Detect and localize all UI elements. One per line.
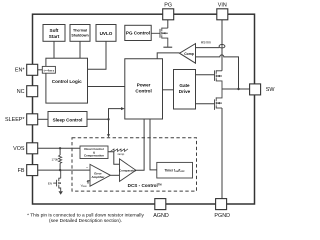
box UVLO [96, 25, 116, 42]
svg-text:Start: Start [49, 34, 60, 39]
op-amp Error Amplifier [90, 164, 110, 186]
wire SW node [222, 88, 250, 90]
svg-text:Gate: Gate [179, 83, 190, 88]
transistor PG open-drain FET [151, 28, 168, 48]
transistor high-side FET [215, 70, 223, 89]
pin EN [27, 64, 38, 75]
pin AGND [155, 199, 166, 210]
box Gate Drive [174, 70, 196, 110]
pin VIN [217, 9, 228, 20]
box Thermal Shutdown [70, 25, 90, 42]
svg-text:PG: PG [164, 2, 172, 8]
svg-text:(see Detailed Description sect: (see Detailed Description section). [49, 218, 122, 224]
svg-text:* This pin is connected to a p: * This pin is connected to a pull down r… [27, 212, 144, 218]
pin SLEEP [27, 114, 38, 125]
box Soft Start [43, 25, 65, 42]
svg-text:AGND: AGND [153, 213, 169, 219]
box Direct Control & Compensation [80, 146, 108, 159]
svg-text:EN*: EN* [15, 68, 25, 74]
pin PGND [216, 199, 227, 210]
transistor low-side FET [215, 89, 223, 110]
svg-text:Control: Control [135, 89, 151, 94]
pin SW [250, 84, 261, 95]
svg-text:ramp: ramp [118, 152, 125, 156]
box DCS-Control dashed [72, 138, 197, 191]
wire EN pin to delay box [38, 69, 43, 71]
svg-text:Soft: Soft [50, 28, 59, 33]
svg-text:Drive: Drive [179, 89, 191, 94]
op-amp Comp (HS current limit comparator) [180, 44, 196, 64]
svg-text:170k: 170k [51, 157, 58, 161]
IC outer border [33, 14, 255, 204]
svg-text:NC: NC [17, 89, 25, 95]
svg-text:PG Control: PG Control [126, 31, 150, 36]
svg-text:Compensation: Compensation [84, 154, 104, 158]
svg-text:FB: FB [18, 168, 25, 174]
wire PG pin to PG FET drain [167, 20, 169, 28]
wire comp top input to sense element [196, 47, 220, 49]
svg-text:Thermal: Thermal [73, 29, 87, 33]
svg-text:VIN: VIN [218, 2, 227, 8]
pin FB [27, 165, 38, 176]
arrowhead into Power Control (sleep) [121, 107, 125, 110]
svg-text:Comparator: Comparator [119, 168, 137, 172]
svg-text:Power: Power [137, 83, 151, 88]
svg-text:t=4ms: t=4ms [44, 69, 55, 73]
wire VOS pin to Direct Control [38, 147, 80, 149]
svg-text:Control Logic: Control Logic [52, 79, 82, 84]
wire Direct Control to comparator (ramp) [108, 152, 120, 164]
pin VOS [27, 143, 38, 154]
wire VREF stub at error amp [88, 181, 90, 184]
wire error amp output to comparator [110, 174, 119, 176]
node SW junction [237, 88, 239, 90]
wire SLEEP pin to Sleep Control [38, 118, 48, 120]
wire comparator output to Power Control bottom [136, 119, 144, 170]
svg-text:SW: SW [266, 87, 276, 93]
wire Gate Drive to LS gate [196, 103, 215, 105]
resistor 170k between VOS and FB [59, 148, 61, 155]
node FB divider junction [59, 169, 61, 171]
ramp sawtooth symbol [111, 149, 129, 152]
box Control Logic [46, 58, 88, 103]
wire comp output to Power Control [157, 53, 179, 59]
wire UVLO to Control Logic [88, 41, 107, 69]
wire VIN down to high-side FET [221, 20, 223, 71]
wire Soft Start to Control Logic [53, 41, 55, 58]
wire FB pin to error amplifier [38, 169, 90, 171]
wire Sleep Control output [87, 118, 109, 120]
box Power Control [125, 59, 163, 119]
box EN delay [42, 66, 55, 73]
arrowhead into DCS block (sleep) [107, 134, 110, 137]
wire sleep to Power Control (arrow) [109, 109, 123, 120]
svg-text:PGND: PGND [214, 213, 230, 219]
pin NC [27, 86, 38, 97]
svg-text:SLEEP*: SLEEP* [5, 117, 25, 123]
svg-text:VOS: VOS [13, 146, 25, 152]
svg-text:Amplifier: Amplifier [91, 175, 105, 179]
svg-text:Comp: Comp [184, 52, 194, 56]
node VOS divider junction [59, 147, 61, 149]
op-amp Comparator [120, 159, 136, 182]
svg-text:EN: EN [48, 181, 52, 185]
wire Power Control to Timer [150, 119, 157, 170]
sense element ellipse on VIN line [219, 45, 225, 48]
box Timer [157, 162, 193, 178]
wire sleep to DCS block (arrow down) [108, 119, 110, 135]
svg-text:HS lim: HS lim [201, 40, 211, 44]
node sleep junction [107, 118, 109, 120]
wire Thermal Shutdown to Control Logic [79, 41, 81, 58]
pin PG [163, 9, 174, 20]
wire Control Logic to Power Control [88, 86, 125, 88]
svg-text:Sleep Control: Sleep Control [53, 117, 83, 122]
wire Power Control to Gate Drive [163, 89, 174, 91]
ground arrow below FET [59, 191, 63, 195]
svg-text:DCS - ControlTM: DCS - ControlTM [128, 183, 162, 188]
svg-text:UVLO: UVLO [100, 31, 113, 36]
wire comp bottom input to SW node (with hop) [196, 55, 239, 89]
transistor FB discharge FET [53, 170, 61, 191]
wire LS source to PGND [221, 108, 223, 199]
box PG Control [125, 25, 151, 40]
wire Gate Drive to HS gate [196, 74, 215, 76]
svg-text:Shutdown: Shutdown [71, 34, 88, 38]
ground bar for PG FET [163, 46, 172, 48]
box Sleep Control [48, 112, 87, 127]
